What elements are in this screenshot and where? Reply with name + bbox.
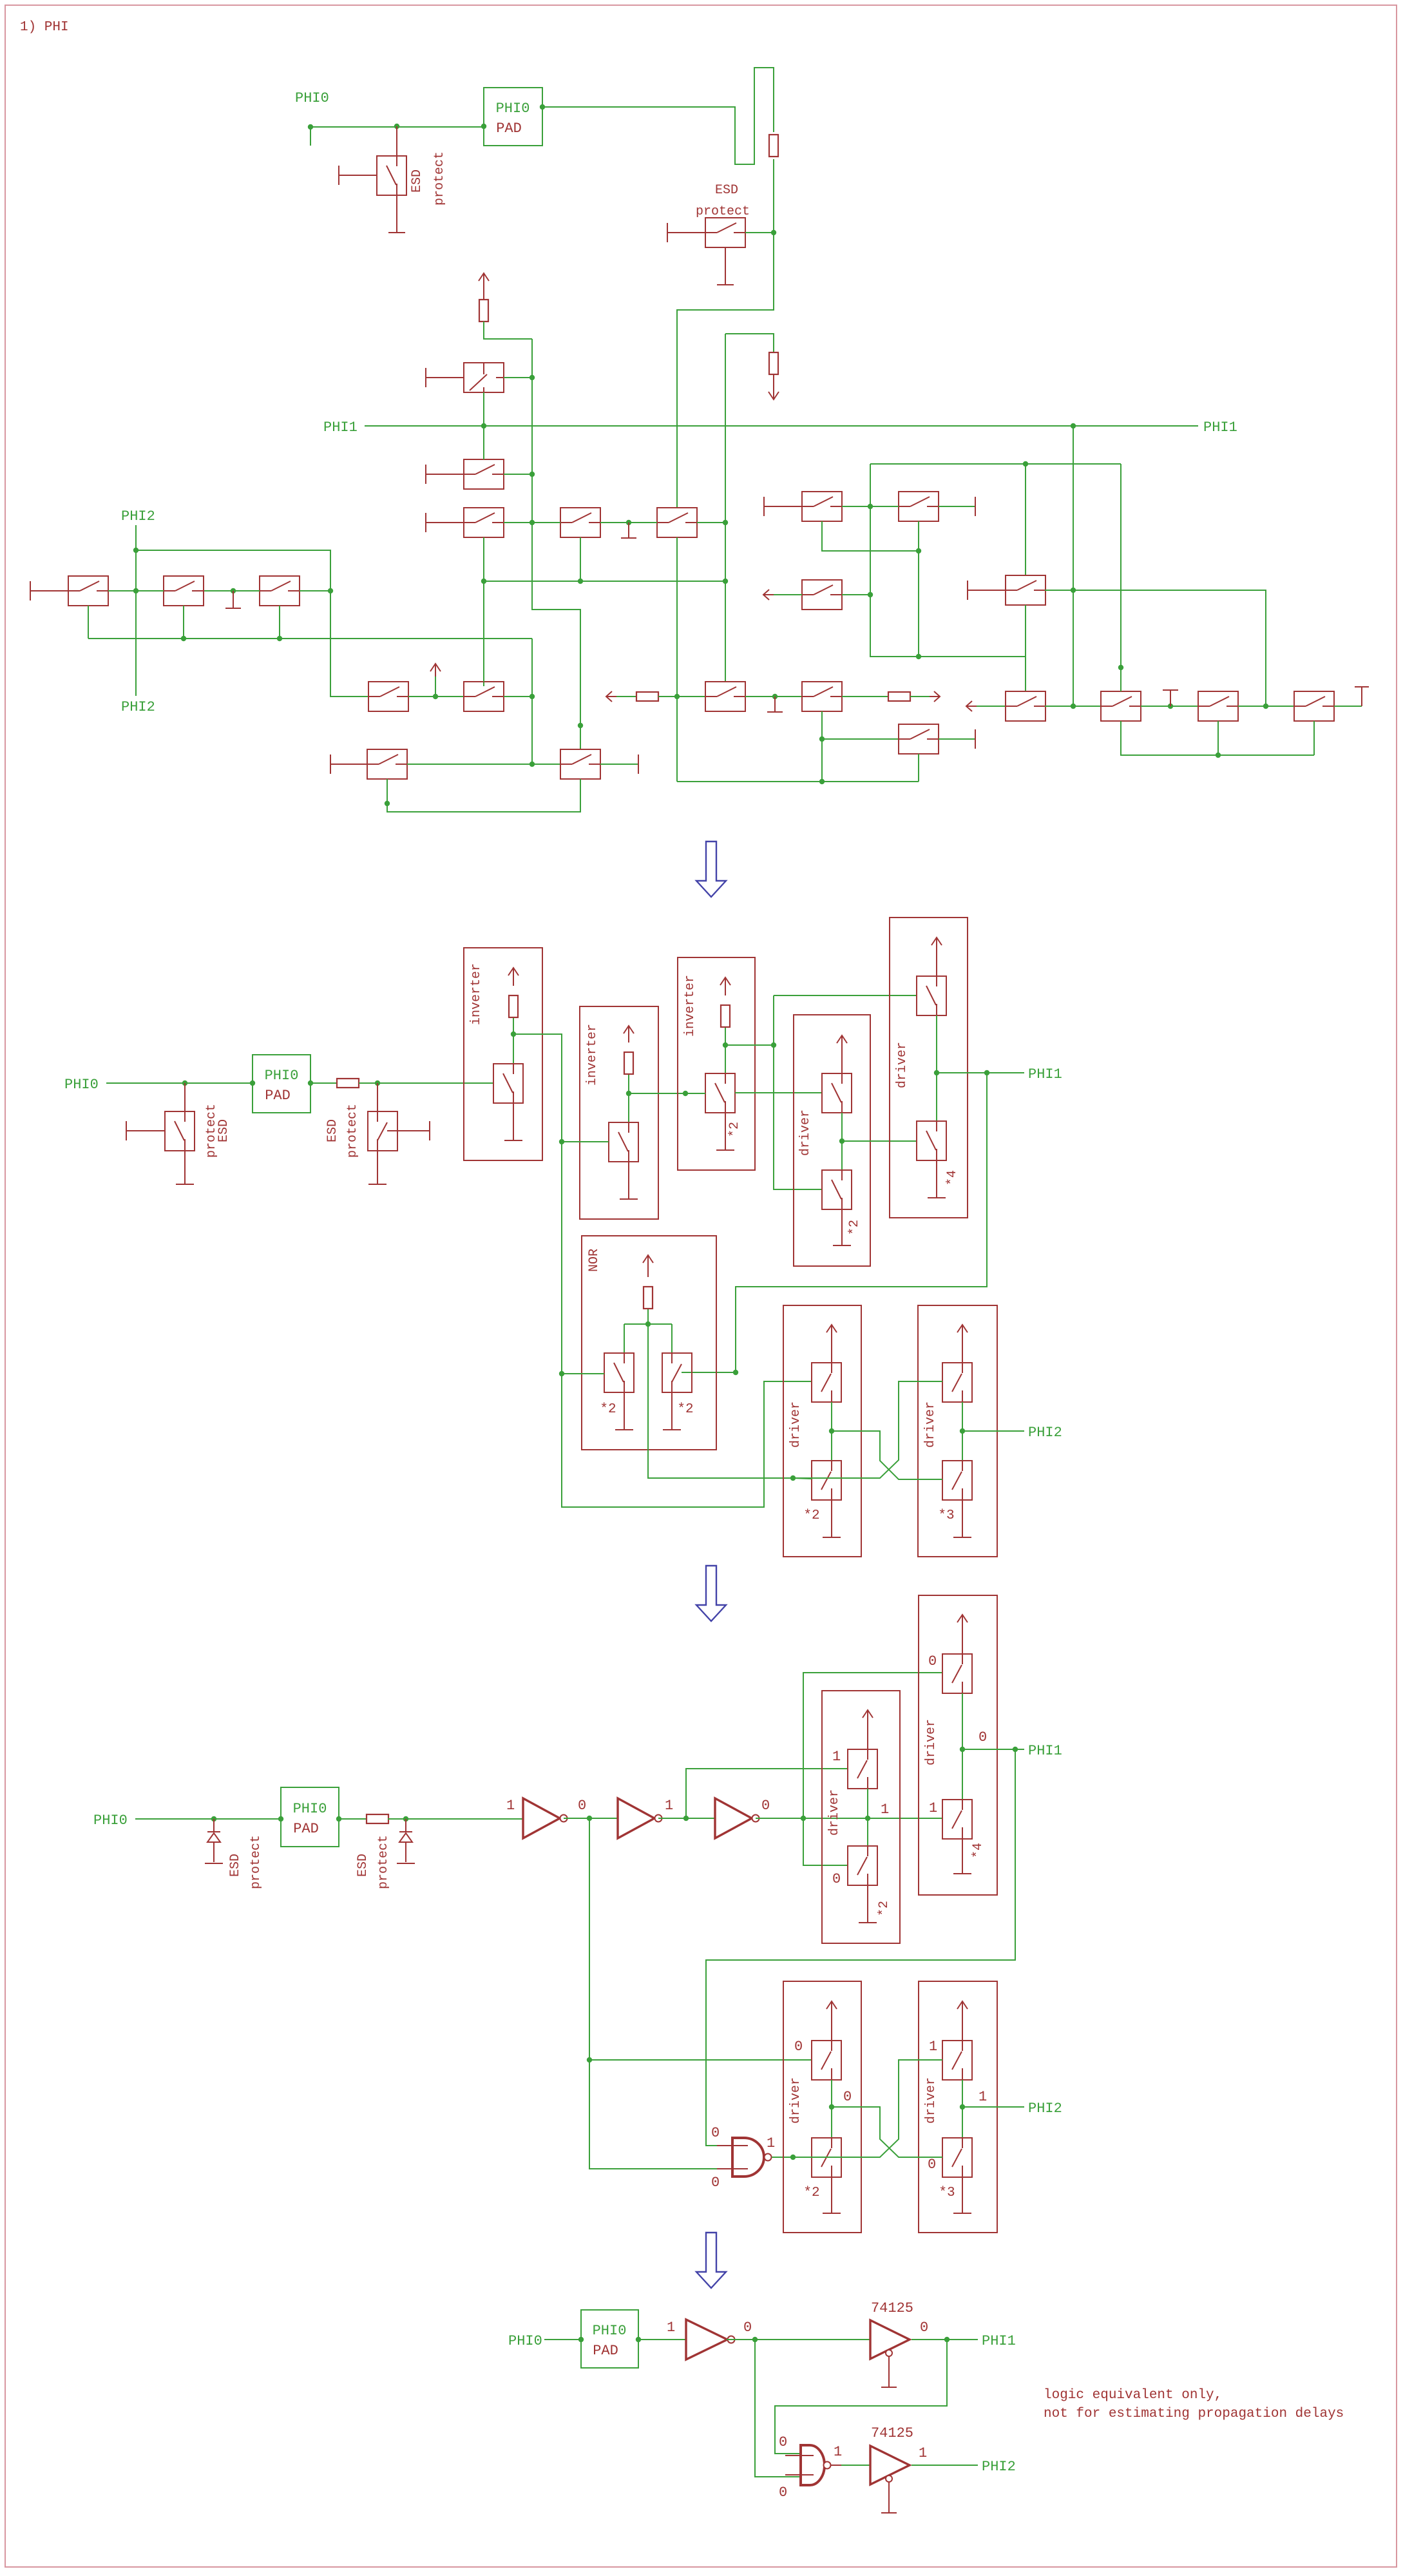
svg-text:ESD: ESD [410, 169, 425, 193]
svg-text:inverter: inverter [683, 975, 698, 1037]
svg-text:1: 1 [506, 1798, 515, 1814]
svg-text:*3: *3 [938, 1508, 954, 1523]
svg-text:*2: *2 [877, 1901, 892, 1916]
svg-text:*2: *2 [600, 1402, 616, 1417]
svg-text:driver: driver [798, 1110, 813, 1156]
svg-text:driver: driver [788, 1401, 803, 1448]
svg-text:PHI0: PHI0 [64, 1077, 99, 1093]
svg-text:ESD: ESD [216, 1119, 231, 1142]
svg-text:1: 1 [767, 2135, 775, 2151]
svg-text:PAD: PAD [496, 120, 522, 137]
svg-text:1) PHI: 1) PHI [20, 20, 69, 35]
svg-text:0: 0 [843, 2089, 852, 2105]
svg-text:PHI0: PHI0 [265, 1068, 299, 1084]
svg-text:0: 0 [743, 2320, 752, 2336]
svg-text:1: 1 [881, 1802, 889, 1818]
svg-text:*2: *2 [803, 2186, 819, 2200]
svg-text:PHI0: PHI0 [593, 2323, 627, 2339]
svg-text:PHI1: PHI1 [1028, 1066, 1062, 1082]
svg-text:PHI1: PHI1 [1028, 1743, 1062, 1759]
svg-text:not for estimating propagation: not for estimating propagation delays [1044, 2407, 1344, 2421]
svg-text:PHI0: PHI0 [508, 2333, 542, 2349]
svg-text:PHI2: PHI2 [1028, 2100, 1062, 2117]
svg-text:protect: protect [345, 1104, 360, 1158]
svg-text:PHI1: PHI1 [323, 419, 358, 436]
svg-text:*2: *2 [727, 1122, 742, 1137]
svg-text:ESD: ESD [228, 1854, 243, 1877]
svg-text:0: 0 [711, 2125, 720, 2141]
svg-text:protect: protect [696, 204, 750, 219]
svg-text:PAD: PAD [293, 1821, 319, 1837]
svg-text:NOR: NOR [587, 1249, 602, 1272]
svg-text:0: 0 [978, 1729, 987, 1745]
svg-text:0: 0 [578, 1798, 586, 1814]
svg-text:PAD: PAD [593, 2343, 618, 2359]
svg-text:1: 1 [978, 2089, 987, 2105]
svg-text:ESD: ESD [325, 1119, 340, 1142]
svg-text:PHI2: PHI2 [121, 699, 155, 715]
svg-text:*2: *2 [803, 1508, 819, 1523]
svg-text:74125: 74125 [871, 2300, 913, 2316]
svg-text:1: 1 [832, 1749, 841, 1765]
svg-text:74125: 74125 [871, 2425, 913, 2441]
svg-text:0: 0 [928, 1653, 937, 1669]
svg-text:*4: *4 [971, 1843, 986, 1858]
svg-text:0: 0 [832, 1871, 841, 1887]
svg-text:0: 0 [794, 2039, 803, 2055]
svg-text:protect: protect [376, 1835, 391, 1889]
svg-text:PHI2: PHI2 [1028, 1425, 1062, 1441]
svg-text:0: 0 [761, 1798, 770, 1814]
svg-text:driver: driver [923, 1401, 938, 1448]
svg-text:logic equivalent only,: logic equivalent only, [1044, 2388, 1222, 2403]
svg-text:PAD: PAD [265, 1088, 291, 1104]
svg-text:*3: *3 [939, 2186, 955, 2200]
svg-text:1: 1 [665, 1798, 673, 1814]
svg-text:0: 0 [711, 2175, 720, 2191]
svg-text:protect: protect [432, 151, 447, 206]
svg-text:0: 0 [920, 2320, 928, 2336]
svg-text:inverter: inverter [469, 963, 484, 1025]
svg-text:inverter: inverter [585, 1024, 600, 1086]
svg-text:PHI0: PHI0 [496, 101, 530, 117]
svg-text:*4: *4 [945, 1170, 960, 1186]
svg-text:driver: driver [827, 1789, 842, 1836]
svg-text:1: 1 [929, 2039, 937, 2055]
svg-text:*2: *2 [847, 1220, 862, 1235]
svg-text:PHI1: PHI1 [1203, 419, 1237, 436]
svg-text:1: 1 [834, 2444, 842, 2460]
svg-text:PHI2: PHI2 [121, 508, 155, 524]
svg-text:PHI2: PHI2 [982, 2459, 1016, 2475]
svg-text:PHI1: PHI1 [982, 2333, 1016, 2349]
svg-text:PHI0: PHI0 [295, 90, 329, 106]
svg-text:PHI0: PHI0 [293, 1801, 327, 1817]
svg-text:0: 0 [928, 2157, 936, 2173]
svg-text:0: 0 [779, 2434, 787, 2450]
svg-text:0: 0 [779, 2485, 787, 2501]
svg-text:driver: driver [788, 2077, 803, 2124]
svg-text:driver: driver [895, 1042, 910, 1088]
svg-text:ESD: ESD [356, 1854, 370, 1877]
svg-text:driver: driver [924, 2077, 939, 2124]
svg-text:*2: *2 [677, 1402, 693, 1417]
svg-text:protect: protect [249, 1835, 263, 1889]
svg-text:PHI0: PHI0 [93, 1812, 128, 1829]
svg-text:1: 1 [667, 2320, 675, 2336]
svg-text:driver: driver [924, 1719, 939, 1765]
svg-text:1: 1 [919, 2445, 927, 2461]
svg-text:ESD: ESD [715, 183, 738, 198]
svg-text:1: 1 [929, 1800, 937, 1816]
